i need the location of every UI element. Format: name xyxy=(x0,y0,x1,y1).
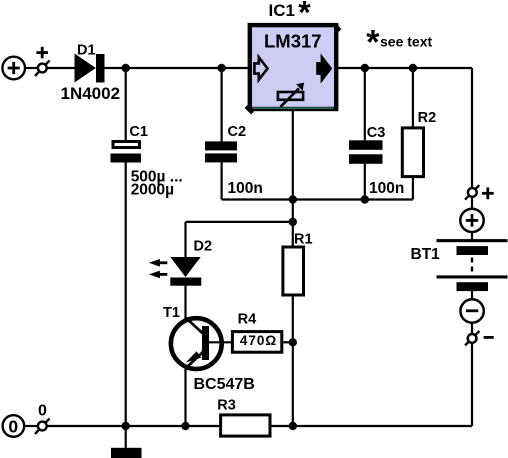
svg-text:see text: see text xyxy=(380,34,432,50)
wire D1 cathode to IC1 input xyxy=(105,67,250,69)
battery dashed link xyxy=(471,258,473,274)
IC1 adjust symbol xyxy=(278,88,303,107)
capacitor C2 xyxy=(205,141,237,162)
wire battery to minus pole circle xyxy=(471,291,473,300)
wire down to C3 xyxy=(364,68,366,140)
wire pole circle to minus terminal xyxy=(471,323,473,334)
svg-text:BC547B: BC547B xyxy=(194,376,255,393)
adj rail horizontal wire xyxy=(222,198,413,200)
svg-text:C2: C2 xyxy=(228,124,247,140)
wire R2 to adj rail xyxy=(412,177,414,200)
node junction C2 tap xyxy=(217,64,225,72)
svg-text:T1: T1 xyxy=(163,305,180,321)
capacitor C1 xyxy=(111,142,142,163)
node junction C1 tap xyxy=(122,64,130,72)
minus label by terminal xyxy=(484,336,494,339)
node junction R4 to R1 xyxy=(289,338,297,346)
IC1 adj pin wire xyxy=(292,111,294,200)
LED arrow 2 xyxy=(149,271,167,279)
diode D1 xyxy=(75,54,105,83)
battery plus pole circle xyxy=(460,209,483,232)
svg-text:D2: D2 xyxy=(194,239,213,255)
plus label by terminal xyxy=(482,187,494,199)
resistor R3 xyxy=(221,415,270,436)
IC1 input arrow xyxy=(254,57,267,80)
node junction C3 tap xyxy=(361,64,369,72)
LED rail horizontal wire xyxy=(186,221,293,223)
wire terminal to D1 anode xyxy=(47,67,75,69)
bottom rail left segment xyxy=(47,425,220,427)
battery minus terminal xyxy=(465,331,479,345)
LED arrow 1 xyxy=(149,259,167,267)
resistor R4 xyxy=(232,332,281,353)
wire R4 to R1 column xyxy=(283,341,293,343)
svg-text:BT1: BT1 xyxy=(411,246,441,263)
wire pole circle to battery xyxy=(471,232,473,240)
svg-text:100n: 100n xyxy=(369,180,404,197)
IC1 output arrow xyxy=(318,57,331,80)
wire down to D2 xyxy=(184,222,186,257)
battery minus pole circle xyxy=(460,299,483,322)
wire down to R2 xyxy=(412,68,414,127)
svg-text:100n: 100n xyxy=(228,180,263,197)
node junction LED rail xyxy=(289,218,297,226)
input terminal (+) xyxy=(35,60,50,76)
svg-text:*: * xyxy=(366,23,380,61)
svg-text:0: 0 xyxy=(38,403,47,420)
svg-text:D1: D1 xyxy=(77,42,96,58)
wire terminal to plus pole circle xyxy=(471,197,473,209)
svg-text:1N4002: 1N4002 xyxy=(61,84,121,103)
wire IC1 output to right column xyxy=(336,67,472,69)
wire C2 to adj rail xyxy=(221,162,223,199)
svg-text:0: 0 xyxy=(8,416,18,436)
battery BT1 xyxy=(437,239,508,291)
node junction emitter tap xyxy=(181,422,189,430)
svg-text:R3: R3 xyxy=(217,398,236,414)
wire to ground xyxy=(125,426,127,448)
svg-text:470Ω: 470Ω xyxy=(240,333,277,348)
battery plus terminal xyxy=(465,185,479,199)
svg-text:R1: R1 xyxy=(294,232,313,248)
node junction R1 bottom xyxy=(289,422,297,430)
wire adj to LED rail xyxy=(292,200,294,247)
svg-text:C1: C1 xyxy=(129,124,148,140)
output zero source circle xyxy=(3,415,25,437)
node junction C3 bottom xyxy=(361,195,369,203)
bottom rail right segment xyxy=(272,425,473,427)
svg-text:R4: R4 xyxy=(238,312,257,328)
wire C1 to bottom rail xyxy=(125,163,127,426)
wire down to C1 xyxy=(125,68,127,141)
svg-text:2000µ: 2000µ xyxy=(131,181,174,198)
wire down to C2 xyxy=(221,68,223,141)
svg-text:LM317: LM317 xyxy=(264,31,322,52)
svg-text:*: * xyxy=(298,0,311,31)
input plus source circle xyxy=(2,57,25,80)
wire D2 to T1 collector xyxy=(184,286,186,320)
op-amp style regulator box IC1 xyxy=(246,25,340,114)
capacitor C3 xyxy=(349,140,383,164)
ground xyxy=(111,448,142,458)
LED D2 xyxy=(170,257,201,286)
svg-text:R2: R2 xyxy=(418,110,437,126)
node junction R2 tap xyxy=(409,64,417,72)
transistor T1 xyxy=(171,318,222,370)
resistor R1 xyxy=(283,247,304,295)
resistor R2 xyxy=(402,128,423,177)
wire source to input terminal xyxy=(25,67,37,69)
svg-text:IC1: IC1 xyxy=(269,1,295,20)
output terminal (0) xyxy=(35,418,50,434)
wire minus terminal to bottom rail xyxy=(471,343,473,426)
right column wire top xyxy=(471,68,473,188)
wire zero circle to terminal xyxy=(25,425,37,427)
plus label above input terminal xyxy=(36,47,48,59)
T1 base wire to R4 xyxy=(209,341,232,343)
wire R1 to bottom rail xyxy=(292,297,294,426)
wire C3 to adj rail xyxy=(364,164,366,200)
svg-text:C3: C3 xyxy=(367,125,386,141)
node junction ground tap xyxy=(122,422,130,430)
wire T1 emitter to bottom rail xyxy=(184,369,186,426)
node junction adj pin xyxy=(289,195,297,203)
